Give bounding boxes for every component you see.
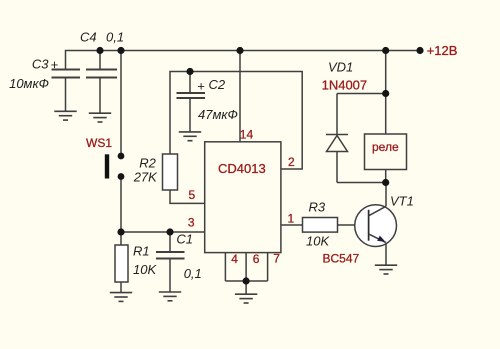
svg-text:+: + [51, 57, 59, 72]
svg-text:2: 2 [288, 155, 295, 169]
svg-text:1N4007: 1N4007 [322, 78, 368, 93]
svg-text:R3: R3 [309, 199, 326, 214]
svg-text:6: 6 [253, 252, 260, 266]
svg-text:5: 5 [189, 188, 196, 202]
svg-text:4: 4 [231, 252, 238, 266]
svg-text:C4: C4 [80, 29, 97, 44]
svg-text:C1: C1 [176, 232, 193, 247]
svg-text:R2: R2 [139, 156, 156, 171]
svg-text:7: 7 [273, 251, 280, 265]
svg-text:реле: реле [372, 140, 399, 154]
svg-text:C3: C3 [32, 57, 49, 72]
svg-text:+: + [197, 79, 205, 94]
svg-text:VT1: VT1 [390, 194, 414, 209]
svg-text:47мкФ: 47мкФ [198, 107, 238, 122]
svg-text:10мкФ: 10мкФ [9, 76, 49, 91]
svg-text:WS1: WS1 [86, 136, 112, 150]
svg-text:14: 14 [240, 128, 254, 142]
svg-text:R1: R1 [133, 244, 150, 259]
svg-text:0,1: 0,1 [106, 29, 124, 44]
svg-text:10K: 10K [133, 262, 157, 277]
svg-text:0,1: 0,1 [184, 266, 202, 281]
svg-text:1: 1 [288, 212, 295, 226]
svg-text:3: 3 [188, 216, 195, 230]
svg-text:27K: 27K [133, 169, 158, 184]
svg-text:BC547: BC547 [323, 252, 360, 266]
svg-text:C2: C2 [209, 77, 226, 92]
svg-text:VD1: VD1 [328, 60, 353, 75]
svg-text:10K: 10K [306, 234, 330, 249]
svg-text:+12В: +12В [427, 43, 458, 58]
svg-text:CD4013: CD4013 [218, 161, 266, 176]
